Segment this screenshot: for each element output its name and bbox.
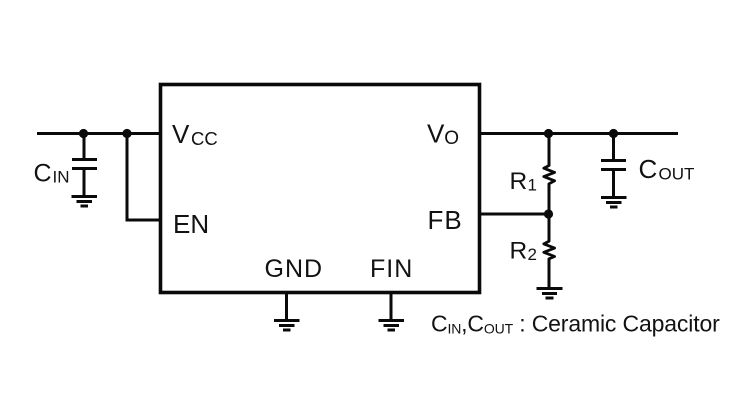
svg-text:CIN,COUT : Ceramic Capacitor: CIN,COUT : Ceramic Capacitor bbox=[431, 311, 720, 337]
svg-text:EN: EN bbox=[173, 209, 209, 239]
svg-text:V: V bbox=[172, 119, 190, 149]
svg-text:IN: IN bbox=[53, 168, 70, 187]
svg-text:FB: FB bbox=[428, 205, 463, 235]
svg-text:R: R bbox=[510, 238, 528, 265]
svg-text:O: O bbox=[444, 128, 459, 149]
svg-text:C: C bbox=[34, 160, 52, 188]
svg-text:V: V bbox=[427, 119, 445, 149]
svg-text:2: 2 bbox=[528, 245, 537, 264]
svg-text:R: R bbox=[510, 168, 528, 195]
svg-text:1: 1 bbox=[528, 176, 537, 195]
svg-text:CC: CC bbox=[191, 128, 218, 149]
svg-text:C: C bbox=[639, 154, 658, 184]
svg-text:GND: GND bbox=[265, 255, 324, 283]
svg-text:OUT: OUT bbox=[659, 165, 695, 184]
svg-text:FIN: FIN bbox=[370, 255, 413, 283]
